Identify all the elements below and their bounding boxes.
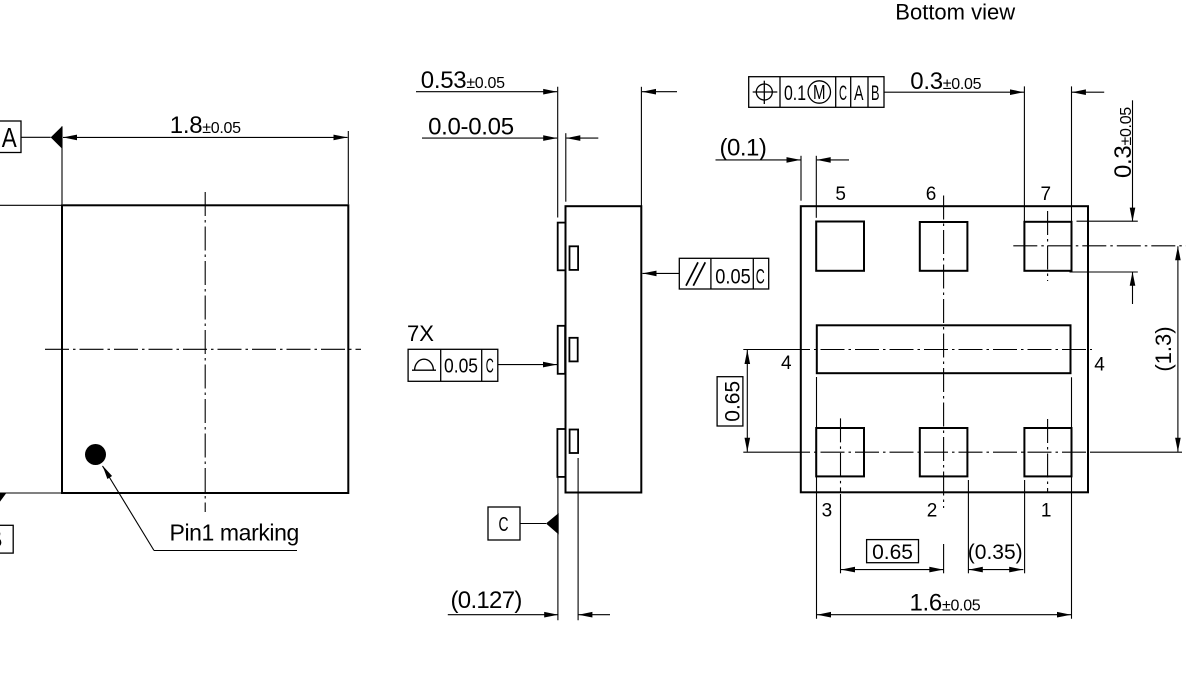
svg-text:(0.127): (0.127) xyxy=(451,587,522,614)
svg-text:7X: 7X xyxy=(407,321,434,346)
svg-text:5: 5 xyxy=(835,184,846,205)
svg-text:7: 7 xyxy=(1041,184,1052,205)
svg-text:0.65: 0.65 xyxy=(872,541,913,564)
svg-text:C: C xyxy=(486,356,494,378)
svg-text:A: A xyxy=(2,122,17,153)
svg-text:4: 4 xyxy=(781,353,792,374)
svg-text:2: 2 xyxy=(927,501,938,522)
svg-text:C: C xyxy=(839,82,847,105)
svg-text:0.05: 0.05 xyxy=(444,356,478,378)
svg-text:B: B xyxy=(0,524,3,554)
svg-text:1: 1 xyxy=(1041,501,1052,522)
svg-text:6: 6 xyxy=(926,184,937,205)
svg-text:0.05: 0.05 xyxy=(715,266,750,289)
svg-text:(0.1): (0.1) xyxy=(720,134,767,161)
svg-text:M: M xyxy=(813,82,826,104)
svg-text:B: B xyxy=(871,82,880,105)
svg-text:(0.35): (0.35) xyxy=(968,541,1023,564)
svg-text:0.1: 0.1 xyxy=(784,82,806,105)
svg-text:(1.3): (1.3) xyxy=(1151,326,1176,371)
svg-text:A: A xyxy=(854,82,864,105)
svg-text:0.0-0.05: 0.0-0.05 xyxy=(428,114,514,141)
svg-text:C: C xyxy=(756,266,765,289)
svg-text:Bottom view: Bottom view xyxy=(895,0,1015,25)
svg-text:4: 4 xyxy=(1094,355,1105,376)
svg-text:3: 3 xyxy=(822,501,833,522)
svg-text:C: C xyxy=(499,514,509,536)
svg-text:Pin1 marking: Pin1 marking xyxy=(170,520,299,546)
svg-text:0.65: 0.65 xyxy=(722,381,745,422)
